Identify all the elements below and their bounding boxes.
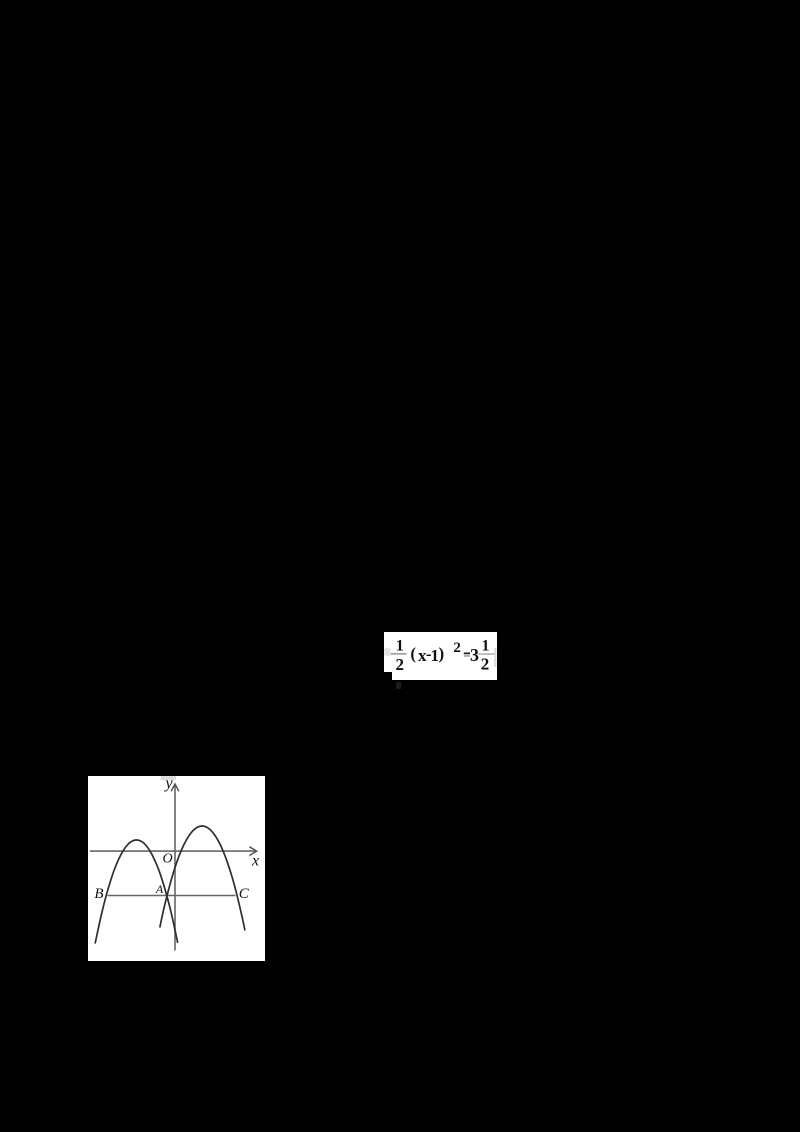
- svg-text:y: y: [163, 776, 173, 792]
- svg-text:x: x: [250, 852, 258, 869]
- svg-text:1: 1: [396, 637, 404, 654]
- svg-text:): ): [438, 644, 444, 663]
- svg-text:2: 2: [481, 655, 490, 674]
- faint gray strip at block right edge: [494, 648, 496, 667]
- line BC: [107, 894, 235, 896]
- left parabola: [95, 840, 178, 944]
- formula block white background (upper part): [384, 632, 497, 673]
- svg-text:2: 2: [453, 640, 461, 656]
- svg-text:3: 3: [470, 645, 479, 665]
- svg-text:2: 2: [395, 655, 404, 674]
- right parabola: [159, 826, 244, 931]
- y-axis arrowhead: [171, 784, 179, 791]
- y-axis: [174, 785, 176, 951]
- minus sign (faded gray box): [384, 648, 390, 656]
- svg-text:A: A: [154, 882, 163, 896]
- svg-text:O: O: [162, 851, 172, 866]
- formula block white background (lower step): [392, 672, 497, 679]
- formula SVG: [384, 631, 497, 681]
- svg-text:(: (: [410, 644, 416, 663]
- x-axis: [90, 850, 256, 852]
- x-axis arrowhead: [249, 846, 256, 855]
- fraction bar left: [391, 653, 407, 655]
- svg-text:B: B: [94, 886, 103, 902]
- equals (top bar dark, bottom bar gray): [464, 652, 470, 654]
- fraction bar right: [478, 653, 496, 655]
- svg-text:1: 1: [482, 638, 490, 655]
- svg-text:C: C: [238, 886, 249, 902]
- light gray scan artifact above y label: [160, 776, 176, 780]
- faint dark artifact below formula: [396, 682, 402, 689]
- graph white box: [88, 776, 265, 961]
